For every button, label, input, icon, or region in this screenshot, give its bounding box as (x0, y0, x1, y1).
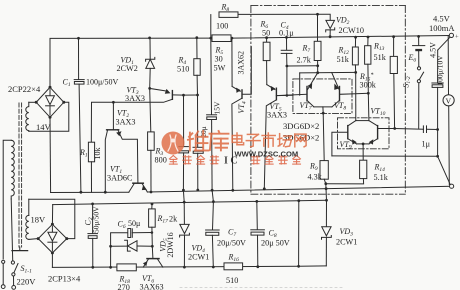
resistor R16 510 (224, 263, 243, 270)
resistor R1 10k (88, 142, 94, 192)
capacitor C7 20u/50V (206, 202, 220, 267)
zener diode VD4 2CW1 (180, 202, 190, 267)
dash-dot enclosure main regulator (251, 6, 405, 195)
svg-text:2CW1: 2CW1 (336, 238, 357, 247)
svg-text:V: V (446, 97, 452, 106)
node VT2 collector bottom (104, 191, 107, 194)
faint dotted baseline (180, 287, 345, 289)
node C4 top (285, 36, 288, 39)
bridge rectifier 2CP13x4 (37, 223, 69, 255)
zener diode VD1 2CW2 (146, 38, 155, 89)
node rail1 VT5 collector (263, 187, 266, 190)
svg-text:3AX3: 3AX3 (116, 118, 136, 127)
wire pair1 emitter bus (300, 71, 356, 74)
resistor R9 4.3k (320, 161, 328, 184)
svg-text:20μ/50V: 20μ/50V (217, 239, 246, 248)
node rail1 x212 (211, 189, 214, 192)
wire 18V top to bridge2 right vertex (29, 199, 75, 238)
resistor R6 50 (263, 38, 270, 85)
wire output minus slant (438, 156, 451, 184)
node 1u to cap column (436, 128, 439, 131)
capacitor C6 50u loop (109, 229, 152, 269)
wire R8 to VD2 (238, 14, 330, 20)
transistor VT1 3AD6C (129, 183, 148, 192)
node R5 right (231, 37, 234, 40)
svg-text:2DW16: 2DW16 (166, 232, 175, 257)
svg-text:100mA: 100mA (429, 23, 455, 33)
node R15 top (392, 35, 395, 38)
svg-text:2CW10: 2CW10 (339, 26, 364, 35)
svg-text:+: + (455, 34, 459, 41)
transistor VT5 3AX3 (264, 85, 293, 189)
svg-text:5W: 5W (214, 64, 226, 73)
transformer core (19, 103, 22, 247)
svg-text:800: 800 (155, 156, 167, 165)
wire top rail right segment (232, 36, 450, 39)
resistor R12 51k (352, 37, 358, 72)
node battery top (417, 35, 420, 38)
resistor R4 510 (194, 38, 200, 95)
svg-text:50μ/50V: 50μ/50V (92, 206, 101, 233)
wire rail2 (53, 200, 327, 204)
transistor VT7 3DG6D (276, 73, 317, 107)
watermark logo circle (162, 132, 185, 155)
svg-text:WWW.DZSC.COM: WWW.DZSC.COM (235, 149, 299, 158)
wire negative rail right (147, 186, 451, 192)
transistor VT6 3AX63 (143, 246, 163, 267)
svg-text:510: 510 (177, 65, 189, 74)
node C1 bottom (80, 191, 83, 194)
watermark big characters (188, 131, 229, 151)
transistor VT3 3AX3 (91, 88, 183, 142)
dash-dot box pair VT9 VT10 (338, 118, 390, 149)
svg-text:50μ: 50μ (128, 219, 140, 228)
resistor R14 5.1k (326, 160, 367, 184)
wire pair1 collector join (314, 107, 332, 161)
svg-text:51k: 51k (374, 53, 387, 62)
node rail1 x232 (231, 189, 234, 192)
node VD1 top (148, 37, 151, 40)
wire top rail left segment (50, 38, 211, 87)
terminal output minus (450, 184, 454, 188)
node R4 top (195, 36, 198, 39)
resistor R8 (219, 12, 238, 18)
transistor VT10 3DG6D (369, 121, 395, 145)
transistor VT4 3AX62 (232, 38, 251, 190)
zener diode VD2 2CW10 (326, 20, 335, 36)
node C4 bottom (286, 65, 289, 68)
transistor VT9 3DG6D (332, 121, 357, 156)
node R6 top (265, 36, 268, 39)
resistor R17 2k (149, 203, 156, 248)
wire R7 upper lead (317, 14, 319, 41)
svg-text:3AX63: 3AX63 (140, 283, 164, 290)
svg-text:3AD6C: 3AD6C (107, 174, 133, 183)
capacitor on R4 column (193, 95, 203, 190)
svg-text:2.7k: 2.7k (297, 56, 312, 65)
svg-text:3AX62: 3AX62 (237, 51, 246, 75)
node C1 top (77, 37, 80, 40)
resistor R3 800 (148, 88, 155, 192)
node VT8 base R13 (367, 92, 370, 95)
wire R8 bypass left riser (210, 15, 212, 38)
node bottom rail C8 (256, 265, 259, 268)
node VD2 bottom (329, 35, 332, 38)
resistor R5 (212, 35, 231, 42)
capacitor C8 20u 50V (251, 200, 265, 267)
node rail1 x183 (182, 189, 185, 192)
node R15 VT10 base (393, 127, 396, 130)
svg-text:5.1k: 5.1k (374, 173, 389, 182)
capacitor on VT3 base column (179, 95, 189, 190)
capacitor C2 50u/50V (88, 203, 98, 269)
resistor R13 51k (365, 37, 371, 93)
svg-text:300k: 300k (360, 81, 377, 90)
svg-text:3DG6D×2: 3DG6D×2 (283, 121, 319, 131)
node R13 top (367, 36, 370, 39)
svg-text:0.1μ: 0.1μ (279, 29, 294, 38)
wire bridge2 positive riser to rail2 (51, 205, 53, 225)
core ground bar (12, 247, 28, 251)
node R8 left junction (209, 37, 212, 40)
svg-text:15V: 15V (213, 101, 222, 115)
capacitor C4 0.1u (281, 37, 292, 95)
link rail1 to rail2 x184 (182, 190, 185, 202)
winding primary 220V (3, 140, 14, 260)
resistor R15 300k (390, 37, 397, 129)
switch S1-1 (1, 260, 18, 289)
svg-text:1μ: 1μ (422, 140, 431, 149)
svg-text:4.5V: 4.5V (433, 14, 451, 24)
capacitor C1 100u/50V (74, 38, 84, 192)
wire pair2 collector join (356, 72, 369, 120)
zener diode VD3 2CW1 (322, 199, 332, 266)
svg-text:3AX3: 3AX3 (125, 94, 145, 103)
node VT1 emitter (150, 191, 153, 194)
svg-text:2CW1: 2CW1 (188, 253, 209, 262)
svg-text:100: 100 (216, 22, 228, 31)
node C4 base tap (286, 94, 289, 97)
switch S1-2 (417, 67, 423, 129)
wire C4 R7 node link (287, 65, 318, 67)
svg-text:4.3k: 4.3k (308, 173, 323, 182)
link rail2 to bottom rail x298 (297, 199, 300, 267)
transistor VT2 3AX3 (105, 102, 138, 192)
svg-text:2CP13×4: 2CP13×4 (48, 274, 81, 284)
winding secondary 18V (26, 199, 38, 239)
capacitor 1u (423, 126, 437, 133)
wire bottom rail (52, 266, 326, 268)
dash-dot box pair VT7 VT8 (293, 79, 352, 114)
node VD1 bottom (148, 87, 151, 90)
svg-text:14V: 14V (36, 122, 52, 132)
wire join to rail1 rail2 (325, 184, 328, 201)
battery E 4.5V (413, 36, 425, 66)
zener diode VD5 2DW16 (109, 240, 152, 251)
wire VT3 base to R4 (184, 94, 198, 96)
node rail1 x197 (196, 189, 199, 192)
svg-text:20μ 50V: 20μ 50V (261, 239, 290, 248)
svg-text:270: 270 (118, 283, 130, 290)
bridge rectifier 2CP22x4 (35, 86, 66, 119)
svg-text:50: 50 (262, 29, 270, 38)
link rail1 to rail2 x213 (212, 190, 213, 202)
node R7 top tap (316, 13, 319, 16)
svg-text:18V: 18V (31, 215, 47, 225)
resistor R7 2.7k (314, 41, 321, 72)
svg-text:51k: 51k (337, 55, 350, 64)
svg-text:3AX3: 3AX3 (267, 111, 287, 120)
resistor R18 270 (117, 264, 136, 271)
voltmeter V (443, 36, 454, 185)
wire VT10 base to S1-2 and 1u (395, 128, 424, 131)
wire bridge2 negative to bottom rail (51, 253, 53, 268)
capacitor C3 20u 15V (207, 38, 217, 190)
svg-text:2CW2: 2CW2 (117, 64, 138, 73)
svg-text:30: 30 (215, 55, 223, 64)
svg-text:100μ/50V: 100μ/50V (86, 78, 119, 87)
terminal output plus (449, 33, 453, 37)
node VT2 base junction (112, 101, 115, 104)
wire bridge1 negative lead (49, 117, 52, 192)
svg-text:510: 510 (226, 276, 238, 285)
svg-text:2k: 2k (169, 215, 178, 224)
node R9 R14 join (324, 182, 327, 185)
svg-text:10k: 10k (93, 148, 102, 160)
node pair2 emitter (357, 143, 369, 161)
wire emitter bus left drop (299, 73, 301, 95)
node bottom rail C7 (212, 266, 215, 269)
winding secondary 14V (26, 102, 69, 131)
transistor VT8 3DG6D (332, 73, 369, 107)
watermark small characters row (169, 156, 300, 165)
svg-text:2CP22×4: 2CP22×4 (8, 84, 41, 94)
node bottom rail VD4 (183, 266, 186, 269)
capacitor 100u/10V output (432, 37, 450, 156)
wire negative rail left (51, 191, 129, 193)
node R12 top (354, 36, 357, 39)
svg-text:220V: 220V (17, 277, 37, 287)
node VT3 base R4 (182, 94, 185, 97)
wire VT9 base to output minus (332, 155, 438, 157)
svg-text:100μ/10V: 100μ/10V (436, 55, 445, 86)
